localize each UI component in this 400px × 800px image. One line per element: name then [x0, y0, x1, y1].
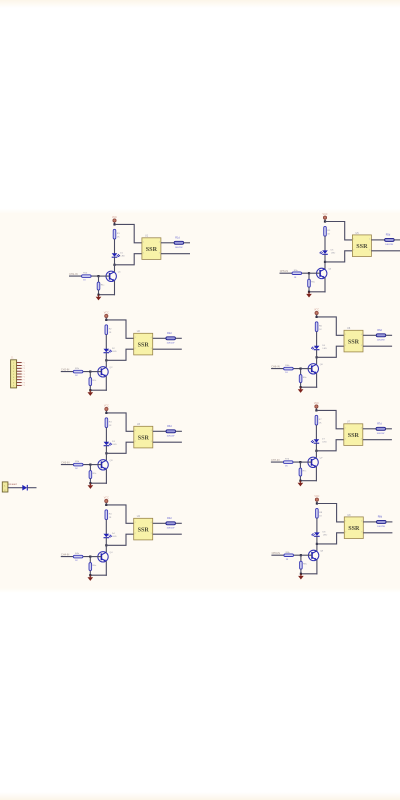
junction base node: [299, 461, 301, 463]
wire input to base: [69, 275, 99, 277]
wire LED to node: [105, 353, 107, 361]
junction LED collector node: [105, 544, 107, 546]
wire SSR pin4 out: [161, 242, 174, 244]
ground: [88, 483, 94, 489]
junction LED collector node: [113, 264, 115, 266]
wire resistor to LED: [316, 518, 318, 532]
resistor R5d output 10K: [385, 234, 395, 246]
wire node to SSR pin 2: [317, 346, 344, 357]
wire node to SSR pin 2: [115, 254, 142, 265]
wire base node down: [89, 557, 91, 563]
resistor R7a pull-up 1K: [315, 415, 322, 425]
resistor R1c pull-down: [97, 282, 105, 290]
resistor R1b series 1K: [82, 273, 92, 282]
resistor R8d output 10K: [377, 516, 387, 528]
svg-text:2: 2: [135, 348, 136, 350]
resistor R6d output 10K: [376, 329, 386, 341]
transistor Q1 NPN: [106, 271, 121, 281]
wire pulldown to ground node: [98, 290, 100, 295]
svg-text:10K/2W: 10K/2W: [175, 247, 184, 249]
svg-text:2: 2: [345, 531, 346, 533]
wire VCC node to SSR pin 1: [115, 224, 142, 242]
LED D5: [320, 249, 336, 254]
wire base node down: [299, 462, 301, 468]
svg-text:SSR: SSR: [146, 247, 158, 253]
svg-text:2: 2: [135, 441, 136, 443]
svg-text:LED: LED: [112, 536, 117, 538]
resistor R4d output 10K: [166, 517, 176, 529]
wire collector: [316, 544, 318, 551]
wire output tail: [176, 522, 182, 524]
wire SSR pin3 out: [153, 441, 182, 443]
wire J2 to diode: [8, 487, 23, 489]
power port VCC (block 1): [112, 216, 117, 222]
svg-text:4: 4: [361, 427, 362, 429]
wire SSR pin4 out: [371, 239, 384, 241]
svg-text:1: 1: [135, 522, 136, 524]
svg-text:D9 4007: D9 4007: [9, 484, 18, 486]
wire emitter return: [301, 573, 318, 575]
svg-text:CH5-IN: CH5-IN: [280, 270, 289, 273]
junction top node: [315, 409, 317, 411]
wire output tail: [386, 334, 392, 336]
LED D3: [104, 441, 117, 446]
wire input to base: [271, 554, 301, 556]
junction LED collector node: [324, 261, 326, 263]
svg-text:10K/2W: 10K/2W: [167, 435, 176, 437]
svg-text:R6d: R6d: [377, 329, 382, 332]
transistor Q8 NPN: [308, 550, 323, 560]
wire emitter down: [114, 281, 116, 296]
wire resistor to LED: [316, 332, 318, 346]
resistor R7c pull-down: [299, 468, 307, 476]
svg-text:LED: LED: [112, 444, 117, 446]
svg-text:4: 4: [361, 521, 362, 523]
wire base node down: [89, 372, 91, 378]
wire input to base: [271, 368, 301, 370]
wire LED to node: [105, 446, 107, 454]
wire base node to transistor: [99, 275, 110, 277]
SSR module U4: [134, 515, 153, 540]
wire resistor to LED: [315, 425, 317, 439]
wire output tail: [386, 521, 392, 523]
wire emitter return: [309, 291, 326, 293]
wire LED to node: [105, 538, 107, 546]
wire base node down: [89, 465, 91, 471]
wire base node down: [300, 369, 302, 375]
junction LED collector node: [315, 450, 317, 452]
resistor R8b series 1K: [284, 552, 294, 561]
wire VCC stem: [105, 318, 107, 320]
svg-text:R1d: R1d: [175, 236, 180, 239]
svg-text:SSR: SSR: [356, 244, 368, 250]
wire VCC node to SSR pin 1: [317, 504, 344, 522]
power port VCC (block 6): [314, 308, 319, 314]
wire emitter down: [315, 467, 317, 482]
junction LED collector node: [316, 543, 318, 545]
resistor R2d output 10K: [166, 332, 176, 344]
transistor Q7 NPN: [308, 457, 323, 467]
svg-text:4: 4: [369, 239, 370, 241]
wire VCC stem: [316, 501, 318, 503]
wire output tail: [176, 430, 182, 432]
junction top node: [113, 223, 115, 225]
diode D9: [22, 485, 27, 491]
svg-text:CH8-IN: CH8-IN: [272, 552, 281, 555]
resistor R7d output 10K: [376, 422, 386, 434]
power port VCC (block 4): [104, 496, 109, 502]
svg-text:3: 3: [151, 441, 152, 443]
ground: [298, 481, 304, 487]
svg-text:SSR: SSR: [348, 433, 360, 439]
svg-text:CH6-IN: CH6-IN: [271, 366, 280, 369]
svg-text:2: 2: [345, 438, 346, 440]
wire pulldown to ground node: [89, 479, 91, 484]
svg-text:R2d: R2d: [167, 332, 172, 335]
wire pulldown to ground node: [89, 571, 91, 576]
wire base node to transistor: [300, 461, 311, 463]
svg-text:3: 3: [361, 531, 362, 533]
svg-text:3: 3: [151, 348, 152, 350]
junction base node: [89, 556, 91, 558]
svg-text:SSR: SSR: [138, 435, 150, 441]
wire output tail: [176, 337, 182, 339]
resistor R4a pull-up 1K: [105, 510, 112, 520]
svg-text:3: 3: [361, 438, 362, 440]
wire output tail: [184, 242, 190, 244]
svg-text:4: 4: [151, 337, 152, 339]
resistor R7b series 1K: [283, 459, 293, 468]
svg-text:3: 3: [361, 345, 362, 347]
svg-text:LED: LED: [331, 253, 336, 255]
resistor R2c pull-down: [89, 378, 97, 386]
junction base node: [97, 275, 99, 277]
junction ground node: [89, 482, 91, 484]
wire emitter down: [316, 373, 318, 388]
wire emitter down: [105, 376, 107, 391]
transistor Q3 NPN: [98, 460, 113, 470]
wire emitter down: [105, 561, 107, 576]
svg-text:4: 4: [151, 522, 152, 524]
wire emitter return: [90, 482, 107, 484]
svg-text:LED: LED: [322, 442, 327, 444]
wire emitter down: [316, 560, 318, 575]
svg-text:10K/2W: 10K/2W: [167, 342, 176, 344]
wire VCC stem: [316, 315, 318, 317]
LED D6: [311, 345, 327, 350]
resistor R2a pull-up 1K: [105, 325, 112, 335]
power port VCC (block 5): [322, 213, 327, 219]
junction ground node: [308, 291, 310, 293]
ground: [88, 575, 94, 581]
wire collector: [105, 545, 107, 552]
power port VCC (block 3): [104, 404, 109, 410]
wire resistor to LED: [114, 239, 116, 253]
wire VCC node to SSR pin 1: [316, 410, 343, 428]
wire base node down: [300, 555, 302, 561]
wire input to base: [280, 272, 310, 274]
SSR module U1: [142, 235, 161, 260]
svg-text:VCC: VCC: [112, 216, 117, 219]
svg-text:LED: LED: [112, 351, 117, 353]
wire node to SSR pin 2: [325, 251, 352, 262]
svg-text:1: 1: [143, 241, 144, 243]
wire resistor to LED: [324, 236, 326, 250]
resistor R1a pull-up 1K: [113, 229, 120, 239]
wire emitter return: [90, 574, 107, 576]
junction base node: [300, 554, 302, 556]
svg-text:SSR: SSR: [138, 527, 150, 533]
svg-text:VCC: VCC: [314, 308, 319, 311]
transistor Q5 NPN: [317, 268, 332, 278]
svg-text:2: 2: [345, 345, 346, 347]
junction top node: [316, 316, 318, 318]
wire VCC stem: [315, 408, 317, 410]
wire SSR pin4 out: [363, 334, 376, 336]
wire diode out: [27, 487, 36, 489]
svg-text:LED: LED: [323, 535, 328, 537]
svg-text:1: 1: [135, 430, 136, 432]
wire input to base: [61, 371, 91, 373]
wire base node to transistor: [301, 368, 312, 370]
wire VCC node to SSR pin 1: [106, 413, 133, 431]
resistor R3a pull-up 1K: [105, 418, 112, 428]
wire emitter down: [324, 278, 326, 293]
LED D2: [104, 348, 117, 353]
wire SSR pin3 out: [363, 439, 392, 441]
svg-text:R8d: R8d: [378, 516, 383, 519]
svg-text:CH7-IN: CH7-IN: [271, 459, 280, 462]
wire base node to transistor: [90, 371, 101, 373]
resistor R3d output 10K: [166, 425, 176, 437]
svg-text:SSR: SSR: [138, 342, 150, 348]
svg-text:1: 1: [353, 239, 354, 241]
wire emitter return: [301, 386, 318, 388]
svg-text:3: 3: [151, 533, 152, 535]
wire VCC stem: [105, 411, 107, 413]
wire node to SSR pin 2: [106, 534, 133, 545]
junction ground node: [300, 386, 302, 388]
wire input to base: [61, 556, 91, 558]
wire base node down: [98, 276, 100, 282]
svg-text:R4d: R4d: [167, 517, 172, 520]
wire output tail: [394, 239, 400, 241]
svg-text:VCC: VCC: [104, 404, 109, 407]
wire collector: [316, 357, 318, 364]
wire resistor to LED: [105, 520, 107, 534]
svg-text:1: 1: [135, 337, 136, 339]
wire base node down: [308, 273, 310, 279]
svg-text:SSR: SSR: [348, 526, 360, 532]
wire base node to transistor: [309, 272, 320, 274]
transistor Q4 NPN: [98, 552, 113, 562]
resistor R6c pull-down: [299, 375, 307, 383]
wire VCC stem: [324, 219, 326, 221]
wire emitter down: [105, 469, 107, 484]
wire input to base: [271, 461, 301, 463]
wire VCC stem: [114, 222, 116, 224]
junction LED collector node: [105, 452, 107, 454]
svg-text:10K/2W: 10K/2W: [377, 526, 386, 528]
SSR module U8: [344, 514, 363, 539]
wire node to SSR pin 2: [316, 440, 343, 451]
wire collector: [105, 453, 107, 460]
svg-text:4: 4: [361, 334, 362, 336]
junction ground node: [97, 294, 99, 296]
wire base node to transistor: [90, 556, 101, 558]
junction base node: [89, 464, 91, 466]
power port VCC (block 7): [314, 402, 319, 408]
svg-text:10K/2W: 10K/2W: [167, 527, 176, 529]
resistor R5a pull-up 1K: [324, 226, 331, 236]
svg-text:VCC: VCC: [104, 496, 109, 499]
svg-text:R3d: R3d: [167, 425, 172, 428]
ground: [306, 292, 312, 298]
wire pulldown to ground node: [300, 383, 302, 388]
wire VCC node to SSR pin 1: [317, 317, 344, 335]
svg-text:1: 1: [345, 521, 346, 523]
svg-text:CH1-IN: CH1-IN: [69, 273, 78, 276]
junction base node: [308, 272, 310, 274]
svg-text:LED: LED: [323, 348, 328, 350]
wire SSR pin3 out: [161, 253, 190, 255]
wire base node to transistor: [90, 464, 101, 466]
wire LED to node: [114, 257, 116, 265]
wire SSR pin4 out: [153, 337, 166, 339]
wire resistor to LED: [105, 428, 107, 442]
junction top node: [105, 504, 107, 506]
svg-text:2: 2: [135, 533, 136, 535]
junction ground node: [89, 389, 91, 391]
resistor R2b series 1K: [73, 368, 83, 377]
wire VCC stem: [105, 503, 107, 505]
svg-text:CH2-IN: CH2-IN: [61, 369, 70, 372]
resistor R5c pull-down: [308, 279, 316, 287]
resistor R4c pull-down: [89, 563, 97, 571]
junction ground node: [300, 573, 302, 575]
SSR module U6: [344, 327, 363, 352]
SSR module U7: [344, 421, 363, 446]
wire emitter return: [300, 480, 317, 482]
svg-text:VCC: VCC: [314, 495, 319, 498]
svg-text:CH3-IN: CH3-IN: [61, 462, 70, 465]
LED D1: [112, 252, 125, 257]
junction ground node: [299, 480, 301, 482]
svg-text:R7d: R7d: [377, 422, 382, 425]
svg-text:3: 3: [369, 249, 370, 251]
svg-text:10K/2W: 10K/2W: [385, 244, 394, 246]
wire SSR pin3 out: [371, 250, 400, 252]
resistor R8a pull-up 1K: [316, 508, 323, 518]
svg-text:4: 4: [159, 241, 160, 243]
wire SSR pin4 out: [363, 521, 376, 523]
svg-text:LED: LED: [121, 256, 126, 258]
LED D8: [311, 531, 327, 536]
resistor R3c pull-down: [89, 471, 97, 479]
svg-text:1: 1: [345, 427, 346, 429]
wire emitter return: [99, 294, 116, 296]
wire SSR pin4 out: [153, 430, 166, 432]
svg-text:1: 1: [345, 334, 346, 336]
wire input to base: [61, 464, 91, 466]
resistor R6b series 1K: [284, 365, 294, 374]
ground: [298, 574, 304, 580]
transistor Q2 NPN: [98, 367, 113, 377]
junction base node: [89, 371, 91, 373]
svg-text:2: 2: [143, 252, 144, 254]
SSR module U2: [134, 330, 153, 355]
junction top node: [324, 220, 326, 222]
wire resistor to LED: [105, 335, 107, 349]
LED D7: [311, 438, 327, 443]
wire pulldown to ground node: [89, 386, 91, 391]
ground: [298, 387, 304, 393]
wire pulldown to ground node: [299, 476, 301, 481]
wire LED to node: [315, 443, 317, 451]
wire emitter return: [90, 389, 107, 391]
ground: [88, 390, 94, 396]
wire output tail: [386, 428, 392, 430]
power port VCC (block 2): [104, 311, 109, 317]
wire node to SSR pin 2: [106, 349, 133, 360]
wire VCC node to SSR pin 1: [106, 320, 133, 338]
junction LED collector node: [316, 356, 318, 358]
connector J1 10-pin header: [11, 355, 26, 388]
ground: [96, 295, 102, 301]
wire SSR pin3 out: [363, 532, 392, 534]
svg-text:VCC: VCC: [314, 402, 319, 405]
svg-text:10K/2W: 10K/2W: [377, 339, 386, 341]
resistor R1d output 10K: [174, 236, 184, 248]
wire collector: [315, 451, 317, 458]
wire SSR pin3 out: [153, 533, 182, 535]
resistor R4b series 1K: [73, 553, 83, 562]
junction top node: [105, 319, 107, 321]
wire LED to node: [324, 254, 326, 262]
wire pulldown to ground node: [308, 287, 310, 292]
resistor R8c pull-down: [300, 561, 308, 569]
wire VCC node to SSR pin 1: [106, 505, 133, 523]
wire node to SSR pin 2: [317, 533, 344, 544]
SSR module U5: [352, 232, 371, 257]
wire base node to transistor: [301, 554, 312, 556]
svg-text:10K/2W: 10K/2W: [377, 433, 386, 435]
svg-text:R5d: R5d: [386, 234, 391, 237]
LED D4: [104, 533, 117, 538]
wire SSR pin3 out: [153, 348, 182, 350]
wire pulldown to ground node: [300, 569, 302, 574]
wire VCC node to SSR pin 1: [325, 222, 352, 240]
junction LED collector node: [105, 359, 107, 361]
svg-text:4: 4: [151, 430, 152, 432]
wire collector: [324, 262, 326, 269]
wire SSR pin4 out: [363, 428, 376, 430]
wire node to SSR pin 2: [106, 442, 133, 453]
junction base node: [300, 368, 302, 370]
resistor R3b series 1K: [73, 461, 83, 470]
connector J2 2-pin: [2, 482, 8, 492]
wire LED to node: [316, 350, 318, 358]
svg-text:3: 3: [159, 252, 160, 254]
svg-text:VCC: VCC: [104, 311, 109, 314]
SSR module U3: [134, 423, 153, 448]
wire collector: [114, 265, 116, 272]
junction top node: [316, 502, 318, 504]
svg-text:SSR: SSR: [348, 339, 360, 345]
junction ground node: [89, 574, 91, 576]
transistor Q6 NPN: [308, 364, 323, 374]
wire SSR pin4 out: [153, 522, 166, 524]
